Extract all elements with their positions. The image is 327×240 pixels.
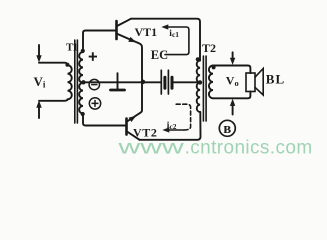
svg-text:T1: T1 <box>66 41 78 53</box>
svg-text:.cntronics.com: .cntronics.com <box>185 138 313 159</box>
svg-text:в: в <box>223 121 231 137</box>
svg-text:www: www <box>117 138 184 159</box>
svg-text:Vo: Vo <box>226 73 239 88</box>
svg-text:EC: EC <box>151 48 168 62</box>
svg-text:T2: T2 <box>202 41 216 55</box>
svg-text:VT1: VT1 <box>135 25 158 39</box>
svg-text:ic1: ic1 <box>169 29 179 39</box>
svg-text:BL: BL <box>266 71 285 86</box>
svg-text:ic2: ic2 <box>167 121 177 131</box>
svg-text:Vi: Vi <box>34 74 46 90</box>
